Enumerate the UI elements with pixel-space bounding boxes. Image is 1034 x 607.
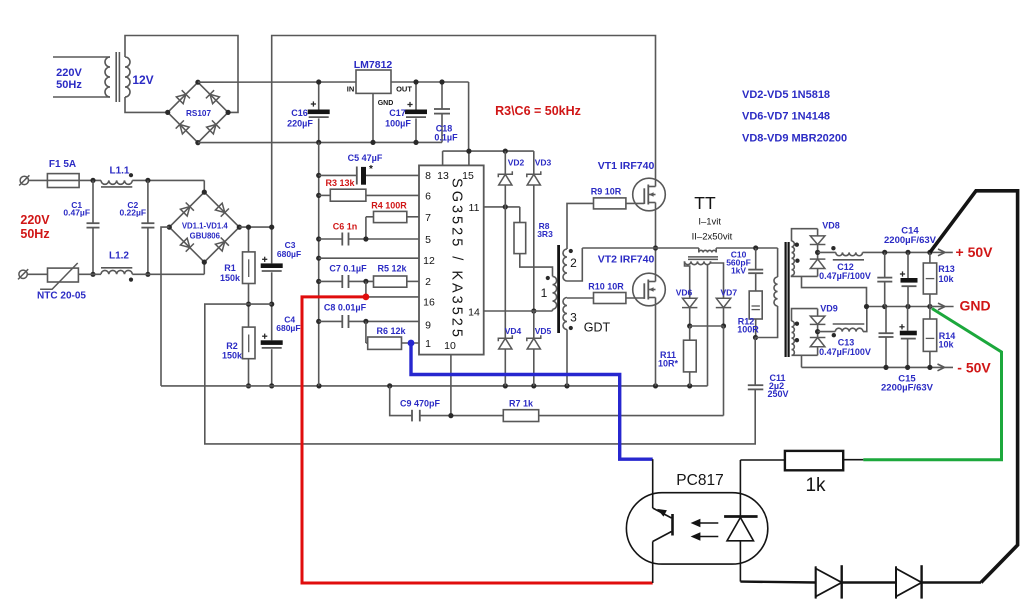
svg-text:R2: R2 <box>226 341 238 351</box>
capacitor C1 0.47uF <box>90 178 95 183</box>
wire L1.1 to bridge <box>132 179 204 181</box>
svg-text:GND: GND <box>378 100 394 107</box>
svg-text:VD8-VD9 MBR20200: VD8-VD9 MBR20200 <box>742 133 847 145</box>
wire bridge minus to ground rail <box>161 227 169 386</box>
svg-text:GND: GND <box>959 298 990 314</box>
diode bridge VD1.1-VD1.4 GBU806 <box>161 184 247 270</box>
PC817 phototransistor <box>671 514 674 536</box>
svg-text:220V: 220V <box>56 67 82 79</box>
capacitor C18 0.1uF <box>441 82 443 109</box>
PC817 photon arrows <box>699 523 718 537</box>
wire secondary return to GND node <box>802 276 867 306</box>
PC817 LED <box>739 460 741 517</box>
svg-text:50Hz: 50Hz <box>56 79 82 91</box>
capacitor C16 220uF <box>318 82 320 110</box>
transistor VT2 IRF740 <box>633 273 666 306</box>
svg-text:100R: 100R <box>737 325 759 335</box>
svg-text:1k: 1k <box>805 475 826 496</box>
wire pin 12 ground <box>319 257 419 259</box>
svg-text:R3\C6 = 50kHz: R3\C6 = 50kHz <box>495 104 581 118</box>
wire pin 11 line <box>484 206 520 208</box>
wire HV+ bus (big box) <box>272 36 656 264</box>
output -50V arrow <box>938 364 954 371</box>
wire VT2 source to ground <box>655 298 657 386</box>
svg-text:2200µF/63V: 2200µF/63V <box>881 383 934 394</box>
svg-text:13: 13 <box>437 170 449 182</box>
svg-text:R13: R13 <box>938 264 955 274</box>
wire LM7812 GND <box>372 93 374 142</box>
capacitor C14 2200uF/63V <box>907 252 909 278</box>
svg-text:C5 47µF: C5 47µF <box>348 153 383 163</box>
capacitor C11 2u2 250V <box>754 338 756 386</box>
wire VD6 VD7 anodes <box>690 325 724 327</box>
output GND arrow <box>930 306 945 308</box>
diode VD4 1N5818 <box>498 335 512 341</box>
svg-text:VD8: VD8 <box>822 221 840 231</box>
svg-text:C8 0.01µF: C8 0.01µF <box>324 303 367 313</box>
wire 12V to VCC rail <box>468 82 470 151</box>
wire L1.2 to bridge <box>132 273 204 275</box>
green wire GND to 1k <box>863 309 1001 460</box>
transformer GDT winding 1 <box>553 276 557 309</box>
svg-text:3: 3 <box>570 311 577 325</box>
svg-text:2: 2 <box>425 276 431 288</box>
wire VT1 source to VT2 drain <box>655 203 657 282</box>
wire bottom black line <box>740 580 815 583</box>
svg-text:0.1µF: 0.1µF <box>434 133 458 143</box>
wire primary ground rail <box>161 385 708 387</box>
wire aux secondary loop <box>125 36 238 113</box>
thermistor NTC 20-05 <box>27 273 47 275</box>
wire pin 14 line <box>484 310 553 312</box>
output +50V arrow <box>930 251 945 253</box>
TT secondary winding A <box>792 229 818 241</box>
capacitor C13 0.47uF/100V <box>885 307 887 334</box>
wire +50V line dots <box>882 250 887 255</box>
svg-text:VD9: VD9 <box>820 304 838 314</box>
svg-text:IN: IN <box>347 85 355 94</box>
svg-text:R1: R1 <box>224 263 236 273</box>
svg-text:15: 15 <box>462 170 474 182</box>
svg-text:50Hz: 50Hz <box>20 227 49 241</box>
capacitor C10 560pF 1kV <box>755 248 757 270</box>
wire CT secondary left lead <box>685 261 690 298</box>
current transformer TT secondary <box>685 261 711 264</box>
diode VD2 1N5818 <box>504 151 506 174</box>
svg-text:8: 8 <box>425 170 431 182</box>
svg-text:100µF: 100µF <box>385 118 411 128</box>
svg-text:LM7812: LM7812 <box>354 59 393 71</box>
svg-text:L1.1: L1.1 <box>109 166 129 177</box>
svg-text:R3 13k: R3 13k <box>325 178 355 188</box>
TT core <box>688 256 718 258</box>
svg-text:R5 12k: R5 12k <box>377 264 407 274</box>
svg-text:NTC 20-05: NTC 20-05 <box>37 291 86 302</box>
red wire pin16 to PC817 emitter <box>302 297 653 583</box>
svg-text:C9 470pF: C9 470pF <box>400 398 441 408</box>
black wire +50V loop <box>930 191 1018 583</box>
svg-text:GBU806: GBU806 <box>190 232 221 241</box>
svg-text:VD5: VD5 <box>535 326 552 336</box>
diode VD5 1N5818 <box>533 311 535 338</box>
svg-text:11: 11 <box>469 202 480 214</box>
diode VD7 1N4148 <box>716 298 730 307</box>
svg-text:RS107: RS107 <box>186 109 211 118</box>
resistor R12 100R <box>755 273 757 291</box>
resistor R10 10R <box>594 293 626 304</box>
svg-text:R10 10R: R10 10R <box>588 282 624 292</box>
wire CT secondary right lead <box>711 261 724 298</box>
resistor R11 10R* <box>689 326 691 340</box>
capacitor C15 2200uF/63V <box>907 307 909 331</box>
svg-text:VD1.1-VD1.4: VD1.1-VD1.4 <box>182 222 229 231</box>
TT primary winding <box>777 248 779 277</box>
svg-text:C7 0.1µF: C7 0.1µF <box>329 264 367 274</box>
svg-text:250V: 250V <box>767 389 788 399</box>
diode VD3 1N5818 <box>533 151 535 174</box>
wire pin 10 to C9 R7 node <box>450 355 452 416</box>
svg-text:C17: C17 <box>389 108 406 118</box>
resistor R7 1k <box>503 410 538 422</box>
resistor R14 10k <box>929 307 931 320</box>
resistor R4 100R pin 7 <box>374 211 407 222</box>
wire winding D return to -50V <box>801 355 803 367</box>
capacitor C17 100uF <box>415 82 417 110</box>
svg-text:L1.2: L1.2 <box>109 251 129 262</box>
resistor R3 13k pin 6 <box>319 194 331 196</box>
svg-text:0.22µF: 0.22µF <box>119 207 146 217</box>
svg-text:VD4: VD4 <box>505 326 522 336</box>
wire aux ground rail <box>198 141 442 143</box>
wire half-bridge midpoint line <box>582 247 699 249</box>
resistor R2 150k <box>243 327 256 359</box>
svg-text:3R3: 3R3 <box>537 229 553 239</box>
svg-text:C16: C16 <box>291 108 308 118</box>
capacitor C5 47uF pin 8 <box>319 174 357 176</box>
wire CT center tap <box>707 265 709 386</box>
input terminal X2 <box>19 270 27 278</box>
svg-text:SG3525 / KA3525: SG3525 / KA3525 <box>449 178 465 340</box>
capacitor C4 680uF <box>261 340 283 345</box>
voltage regulator LM7812 <box>356 70 391 93</box>
fuse F1 5A <box>29 179 48 181</box>
transformer GDT winding 2 <box>563 249 567 281</box>
capacitor C2 0.22uF <box>145 178 150 183</box>
svg-text:1: 1 <box>541 286 548 300</box>
TT secondary winding D <box>792 338 795 355</box>
output choke L2 <box>818 251 836 253</box>
svg-text:VT2 IRF740: VT2 IRF740 <box>598 254 655 266</box>
wire GND output line <box>867 306 930 308</box>
diode bridge RS107 <box>159 74 236 151</box>
svg-text:7: 7 <box>425 212 431 224</box>
svg-text:VD6: VD6 <box>676 287 693 297</box>
svg-text:680µF: 680µF <box>277 249 301 259</box>
resistor R1 150k <box>248 227 250 252</box>
svg-text:10: 10 <box>444 340 456 352</box>
svg-text:2200µF/63V: 2200µF/63V <box>884 235 937 246</box>
svg-text:- 50V: - 50V <box>957 360 991 376</box>
capacitor C8 0.01uF pin 9 <box>319 320 343 322</box>
input terminal X1 <box>20 176 28 184</box>
svg-text:2: 2 <box>570 256 577 270</box>
transformer GDT winding 3 <box>563 298 567 330</box>
svg-text:C13: C13 <box>838 338 855 348</box>
wire to L1.1 <box>79 179 101 181</box>
output choke L3 <box>818 331 836 333</box>
svg-text:10R*: 10R* <box>658 359 679 369</box>
svg-text:VD3: VD3 <box>535 158 552 168</box>
wire pin 16 feedback <box>365 281 367 297</box>
wire PC817 collector <box>652 459 654 508</box>
wire GND bus <box>318 142 320 386</box>
svg-text:VD7: VD7 <box>721 287 738 297</box>
current transformer TT primary <box>698 248 700 253</box>
wire capacitor midpoint to TT return <box>205 304 755 444</box>
svg-text:0.47µF/100V: 0.47µF/100V <box>819 347 871 357</box>
svg-text:VD2-VD5 1N5818: VD2-VD5 1N5818 <box>742 89 830 101</box>
diode VD6 1N4148 <box>683 298 697 307</box>
svg-text:*: * <box>369 164 373 175</box>
svg-text:TT: TT <box>694 193 716 213</box>
resistor R8 3R3 <box>519 207 521 223</box>
svg-text:R9 10R: R9 10R <box>591 187 622 197</box>
resistor R5 12k pin 2 <box>374 276 407 287</box>
svg-text:I–1vit: I–1vit <box>698 217 721 228</box>
svg-text:12V: 12V <box>132 73 153 87</box>
svg-text:C6 1n: C6 1n <box>333 222 358 232</box>
inductor L1.1 <box>101 180 132 184</box>
transistor VT1 IRF740 <box>633 178 666 211</box>
svg-text:GDT: GDT <box>584 321 611 335</box>
diode VD11 <box>895 566 897 598</box>
wire -50V line <box>802 366 945 368</box>
svg-text:+ 50V: + 50V <box>956 244 994 260</box>
wire LM7812 OUT line <box>391 81 469 83</box>
svg-text:680µF: 680µF <box>276 323 300 333</box>
capacitor C12 0.47uF/100V <box>884 252 886 277</box>
wire C9 R7 line <box>390 386 412 416</box>
aux transformer TR1 220V/12V <box>53 56 110 58</box>
capacitor C7 0.1uF pin 2 <box>319 280 343 282</box>
svg-text:150k: 150k <box>222 351 243 361</box>
svg-text:R4 100R: R4 100R <box>371 201 407 211</box>
wire 12V unregulated to LM7812 IN <box>198 81 356 83</box>
svg-text:14: 14 <box>468 307 480 319</box>
svg-text:16: 16 <box>423 297 435 309</box>
svg-text:6: 6 <box>425 191 431 203</box>
svg-text:10k: 10k <box>938 274 954 284</box>
svg-text:OUT: OUT <box>396 85 412 94</box>
wire VD7 node to R7 <box>723 326 725 416</box>
svg-text:5: 5 <box>425 234 431 246</box>
svg-text:VT1 IRF740: VT1 IRF740 <box>598 160 655 172</box>
svg-text:VD2: VD2 <box>508 158 525 168</box>
TT secondary winding C <box>792 309 818 322</box>
inductor L1.2 <box>101 270 132 274</box>
wire VCC rail pins 13 15 <box>443 150 534 152</box>
svg-text:220V: 220V <box>20 213 50 227</box>
TT main core <box>784 242 786 357</box>
GDT core <box>557 245 560 333</box>
resistor R13 10k <box>929 252 931 263</box>
svg-text:1kV: 1kV <box>731 265 746 275</box>
svg-text:0.47µF: 0.47µF <box>63 207 90 217</box>
IC U1 SG3525/KA3525 <box>419 165 484 354</box>
svg-text:150k: 150k <box>220 273 241 283</box>
svg-text:12: 12 <box>423 255 435 267</box>
svg-text:R7 1k: R7 1k <box>509 398 534 408</box>
svg-text:220µF: 220µF <box>287 118 313 128</box>
resistor R9 10R <box>594 198 626 209</box>
diode VD10 <box>815 566 817 598</box>
blue wire pin1 to PC817 collector <box>411 343 653 459</box>
wire bridge plus to HV bus <box>239 226 271 228</box>
svg-text:0.47µF/100V: 0.47µF/100V <box>819 271 871 281</box>
svg-text:II–2x50vit: II–2x50vit <box>692 232 733 243</box>
svg-text:PC817: PC817 <box>676 472 723 489</box>
TT secondary winding B <box>792 258 795 275</box>
svg-text:VD6-VD7 1N4148: VD6-VD7 1N4148 <box>742 111 830 123</box>
capacitor C6 1n pin 5 <box>319 238 343 240</box>
svg-text:R6 12k: R6 12k <box>376 326 406 336</box>
svg-text:1: 1 <box>425 338 431 350</box>
resistor 1k feedback <box>740 459 785 461</box>
resistor R6 12k pin 1 <box>365 321 367 343</box>
svg-text:9: 9 <box>425 320 431 332</box>
svg-text:F1 5A: F1 5A <box>49 159 76 170</box>
capacitor C9 470pF <box>411 410 413 422</box>
capacitor C3 680uF <box>269 225 274 230</box>
svg-text:10k: 10k <box>938 340 954 350</box>
